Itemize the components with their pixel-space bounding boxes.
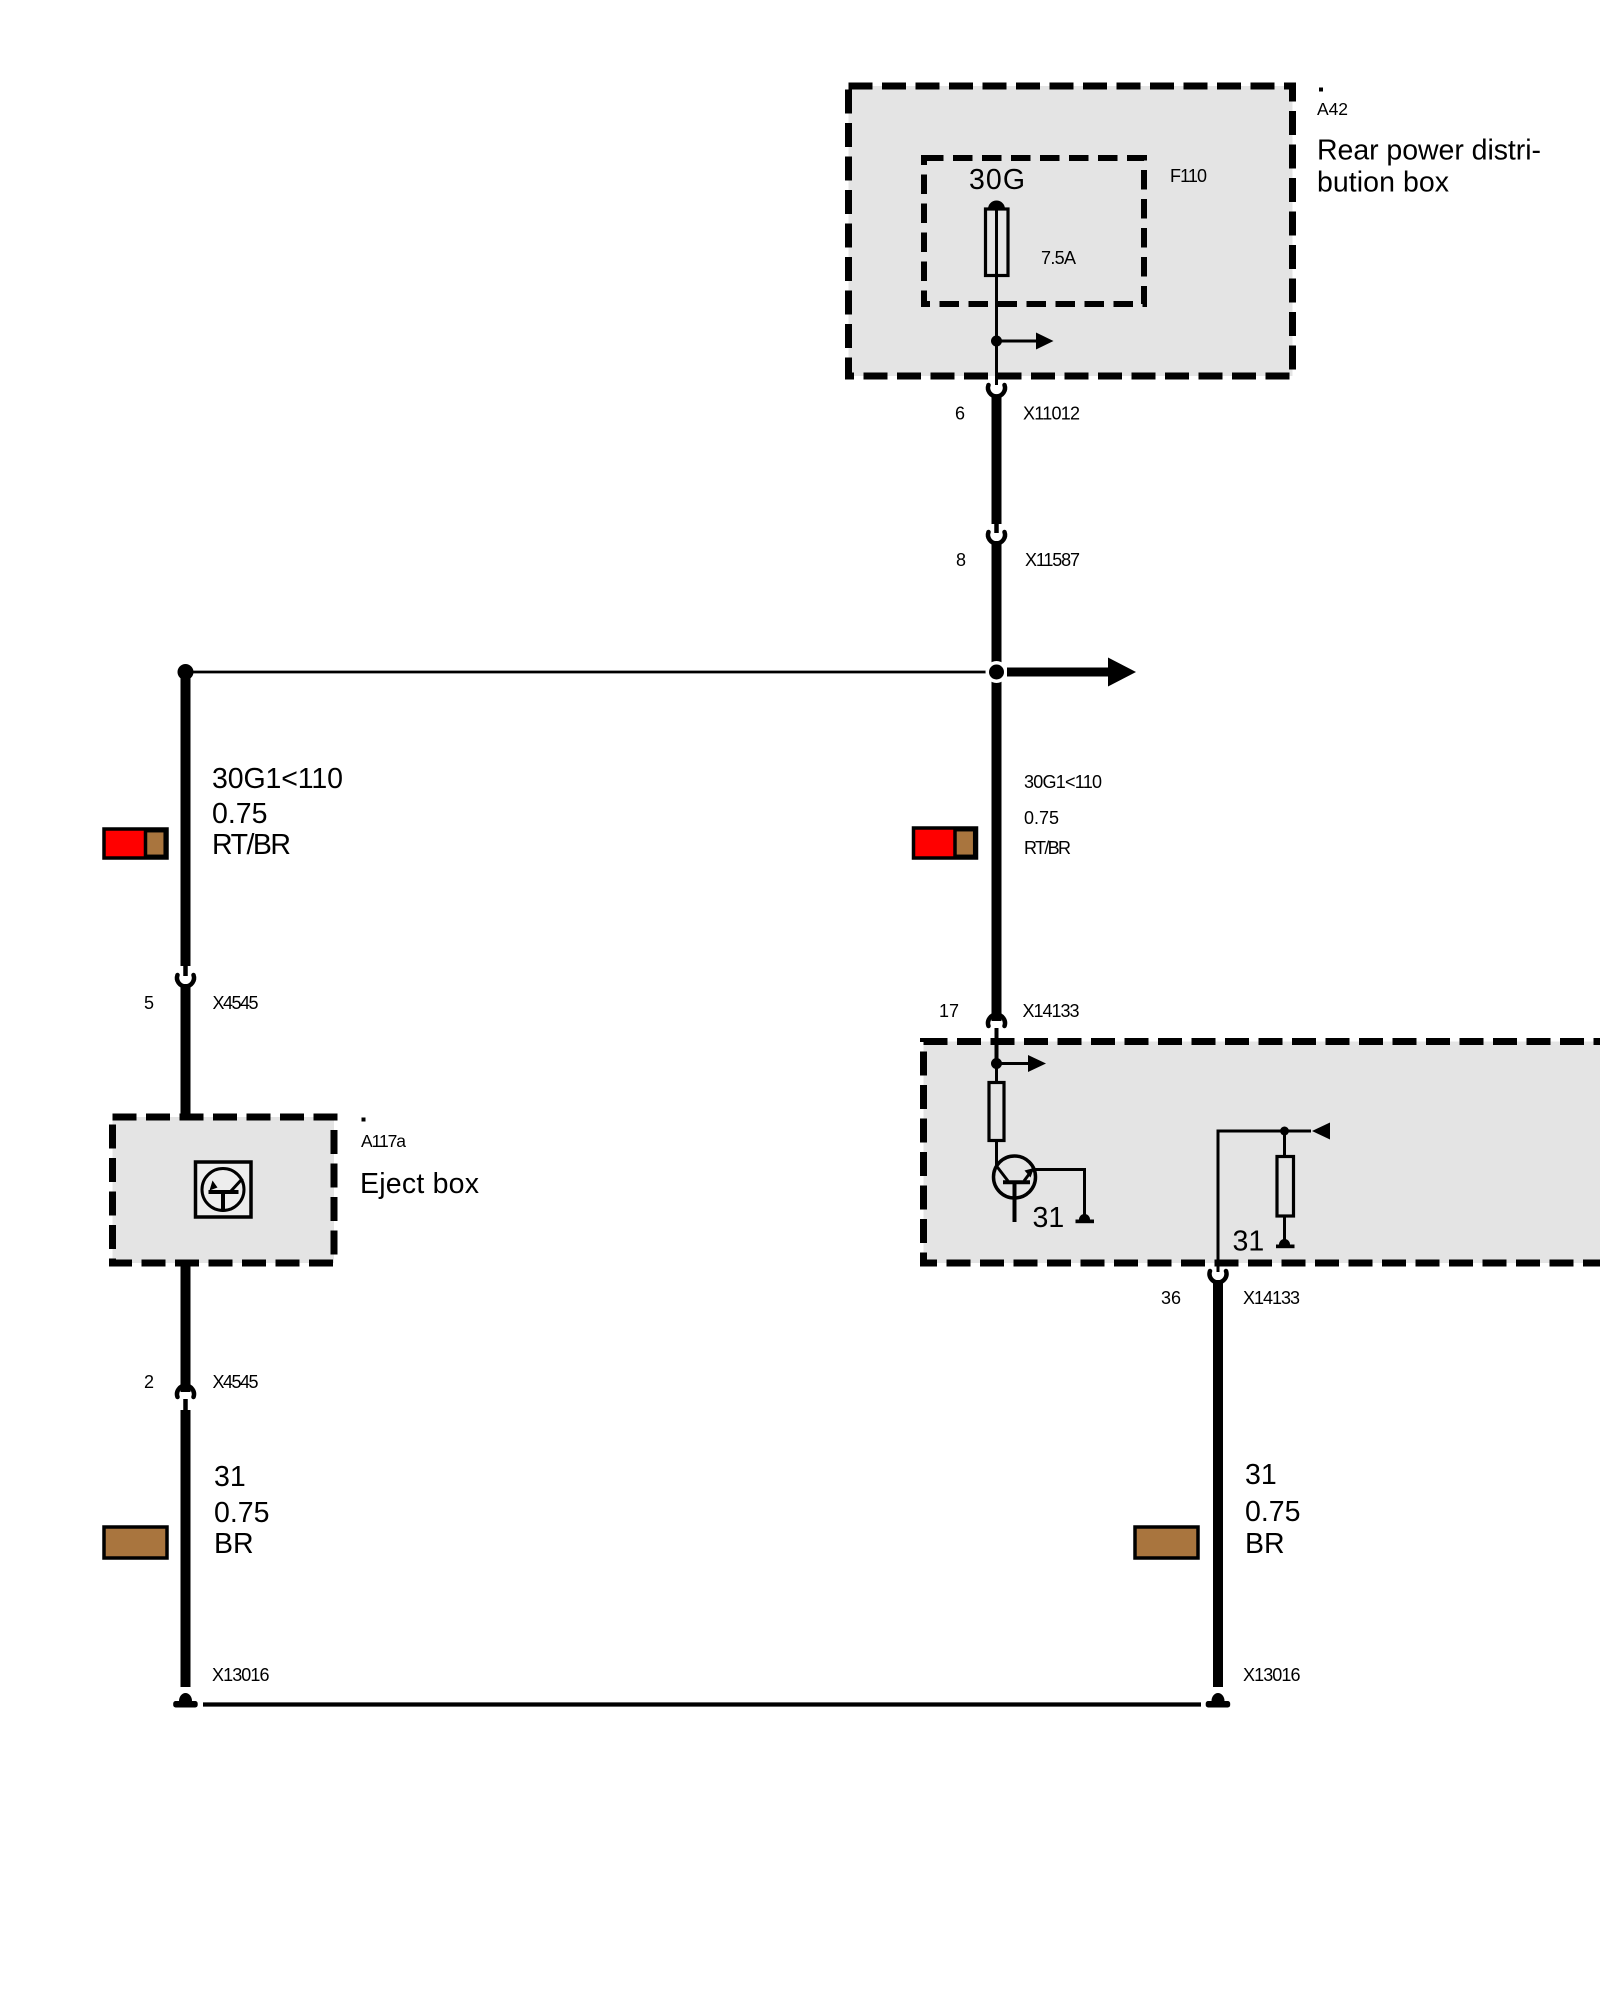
wire X11587 down to X14133 [992,541,1002,1021]
connector X4545 pin 5 socket [177,975,194,986]
svg-text:17: 17 [939,1001,959,1021]
ground bus line [203,1702,1201,1706]
ground 31 in box left [1079,1214,1090,1220]
wire color code BR right [1135,1527,1198,1558]
svg-text:X13016: X13016 [1243,1665,1301,1685]
svg-text:A42: A42 [1317,99,1348,119]
wire color code BR left [104,1527,167,1558]
fuse F110 symbol [988,201,1005,210]
svg-text:X14133: X14133 [1243,1288,1300,1308]
wire down left to X4545 [181,672,191,966]
arrow wire-continues in A42 box [997,340,1037,343]
off-page arrow right [1007,668,1108,677]
internal wire right branch corner [1218,1131,1311,1272]
svg-text:30G1<110: 30G1<110 [1024,772,1102,792]
arrow left triangle [1312,1123,1330,1140]
svg-text:0.75: 0.75 [212,798,267,830]
connector X14133 pin 36 socket [1210,1271,1227,1282]
wire 31 BR down to ground left [181,1410,191,1687]
transistor [994,1156,1036,1198]
svg-text:7.5A: 7.5A [1041,248,1076,268]
svg-text:31: 31 [1245,1459,1277,1491]
svg-text:36: 36 [1161,1288,1181,1308]
wire branch to eject box (horizontal) [186,671,997,674]
svg-text:X11012: X11012 [1023,404,1080,424]
eject box A117a [113,1117,335,1263]
svg-text:30G1<110: 30G1<110 [212,763,343,795]
svg-text:bution box: bution box [1317,167,1449,199]
svg-text:X14133: X14133 [1023,1001,1080,1021]
svg-text:0.75: 0.75 [1245,1496,1300,1528]
connector X11587 pin 8 socket [988,532,1005,543]
node in right box [991,1058,1002,1069]
svg-text:X11587: X11587 [1025,550,1080,570]
control unit box A42 Rear power distribution box [849,86,1293,376]
svg-text:X4545: X4545 [213,1372,259,1392]
connector X11012 pin 6 socket [988,385,1005,396]
wire resistor to transistor [995,1141,998,1168]
wire color code RT/BR right [914,828,977,858]
svg-text:5: 5 [144,993,154,1013]
svg-text:2: 2 [144,1372,154,1392]
fuse holder box F110 [924,158,1144,304]
junction node with halo on main wire [986,661,1008,683]
wire X11012 to X11587 [992,395,1002,524]
ground 31 in box right [1279,1239,1290,1245]
wire fuse to connector X11012 [995,209,998,385]
wire X4545 to eject box [181,984,191,1119]
connector X14133 pin 17 socket open-down [988,1015,1005,1026]
label A117a [362,1118,366,1122]
connector X4545 pin 2 socket open-down [177,1386,194,1397]
svg-text:8: 8 [956,550,966,570]
resistor in right box [989,1083,1004,1141]
ground X13016 left [179,1693,192,1701]
svg-text:X13016: X13016 [212,1665,270,1685]
svg-text:Rear power distri-: Rear power distri- [1317,135,1541,167]
node junction in A42 box [991,336,1002,347]
svg-text:31: 31 [1233,1226,1265,1258]
node left branch [178,664,194,680]
svg-text:0.75: 0.75 [214,1497,269,1529]
label A42 [1319,88,1323,92]
wire color code RT/BR left [104,829,167,858]
pin wire from connector 17 into box [995,1028,999,1064]
svg-text:Eject box: Eject box [360,1168,479,1200]
svg-text:F110: F110 [1170,166,1207,186]
resistor 2 in right box [1277,1157,1294,1217]
svg-text:RT/BR: RT/BR [1024,838,1071,858]
svg-text:BR: BR [1245,1528,1285,1560]
svg-text:6: 6 [955,404,965,424]
svg-text:RT/BR: RT/BR [212,829,291,861]
svg-text:31: 31 [214,1461,246,1493]
eject box motor symbol [196,1162,252,1217]
svg-text:0.75: 0.75 [1024,808,1059,828]
ground X13016 right [1212,1693,1225,1701]
wire resistor 2 to ground [1283,1216,1286,1240]
wire transistor to ground [1033,1170,1085,1216]
arrow wire-continues in right box [997,1062,1029,1065]
node right branch [1280,1127,1289,1136]
wire node to resistor [995,1064,998,1084]
wire 31 BR right down to ground [1213,1280,1223,1687]
svg-text:A117a: A117a [361,1131,406,1151]
svg-text:X4545: X4545 [213,993,259,1013]
right control unit box [924,1042,1600,1264]
wire eject box to X4545 pin 2 [181,1263,191,1392]
svg-text:BR: BR [214,1528,254,1560]
svg-text:30G: 30G [969,164,1025,196]
svg-text:31: 31 [1033,1202,1065,1234]
wire node to resistor 2 [1283,1131,1286,1157]
